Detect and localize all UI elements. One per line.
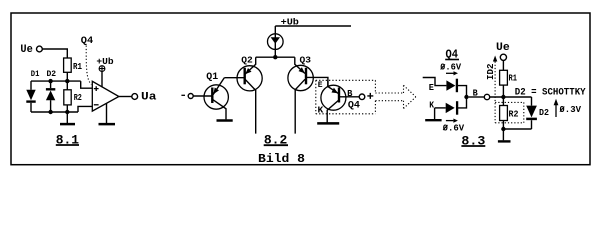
wire op-amp output	[119, 96, 132, 98]
wire Ue to R1	[42, 49, 67, 58]
wire K lead	[435, 107, 446, 109]
svg-text:Ue: Ue	[496, 42, 510, 54]
current arrow top	[446, 72, 454, 74]
svg-text:+Ub: +Ub	[96, 57, 113, 67]
svg-text:Bild 8: Bild 8	[258, 152, 305, 166]
wire bottom 8.3	[503, 128, 531, 130]
svg-text:R1: R1	[73, 61, 82, 72]
svg-text:K: K	[318, 105, 324, 116]
svg-text:Ue: Ue	[20, 44, 33, 56]
current source I1	[274, 26, 276, 34]
resistor R1	[64, 58, 72, 72]
wire node to op-amp plus input	[81, 81, 93, 88]
svg-text:Q4: Q4	[81, 36, 93, 47]
terminal Ue	[37, 46, 43, 52]
junction dot current source	[273, 55, 277, 59]
terminal Ue	[500, 54, 506, 60]
dotted box R2	[495, 102, 524, 122]
junction dot bottom	[501, 127, 505, 131]
wire node rail	[256, 56, 295, 58]
ground rail	[66, 112, 68, 123]
wire R1 bottom to node	[66, 72, 68, 81]
resistor R2	[500, 106, 508, 121]
svg-text:Q2: Q2	[241, 54, 253, 65]
svg-text:+Ub: +Ub	[281, 17, 299, 27]
svg-text:D2: D2	[539, 107, 549, 118]
diode lower (B-K)	[446, 103, 455, 113]
big dotted arrow	[375, 85, 415, 108]
resistor R2	[66, 81, 68, 90]
input minus terminal	[181, 94, 185, 96]
diode upper (B-E)	[446, 80, 455, 90]
junction dot rail	[501, 95, 505, 99]
svg-text:0.6V: 0.6V	[443, 123, 465, 133]
border frame	[11, 13, 590, 165]
junction dot D2 bottom	[48, 110, 52, 114]
resistor R1	[500, 70, 508, 85]
wire rail to op-amp minus input	[78, 106, 92, 112]
terminal Ua	[132, 94, 138, 100]
svg-text:E: E	[429, 83, 435, 93]
ground Q4	[317, 122, 339, 125]
svg-text:R2: R2	[74, 92, 82, 103]
wire input to Q1 base	[193, 95, 212, 97]
dashed box Q4 composite	[316, 80, 376, 114]
junction dot D2 top	[48, 79, 52, 83]
svg-text:E: E	[318, 80, 323, 90]
ground op-amp	[106, 103, 108, 123]
svg-text:D2: D2	[47, 70, 57, 79]
diode D2 schottky	[531, 97, 533, 106]
terminal connector	[484, 94, 489, 99]
svg-text:R1: R1	[509, 73, 518, 84]
diode D2	[50, 81, 52, 88]
junction dot R1/R2	[65, 79, 69, 83]
ground Q1	[217, 119, 233, 121]
svg-text:Q1: Q1	[206, 72, 218, 83]
dotted current arrow ID2	[494, 62, 496, 123]
svg-text:ID2: ID2	[486, 64, 496, 81]
junction dot B	[464, 95, 468, 99]
wire E lead	[423, 78, 447, 86]
wire +Ub rail	[275, 25, 351, 27]
wire B to connector	[469, 96, 485, 98]
svg-text:Q3: Q3	[300, 54, 312, 65]
wire node horizontal	[31, 80, 81, 82]
wire Q1 emitter to Q2 base	[224, 77, 244, 79]
wire Q3 base to E	[306, 77, 328, 86]
wire connector to rail and D2	[490, 96, 532, 98]
dotted pointer line Q4	[86, 46, 91, 85]
op-amp U1	[92, 81, 119, 111]
svg-text:R2: R2	[509, 108, 519, 119]
svg-text:0.3V: 0.3V	[559, 105, 581, 115]
svg-text:0.6V: 0.6V	[440, 63, 462, 73]
svg-text:D1: D1	[31, 70, 40, 79]
voltage arrow 0.3V	[555, 105, 557, 118]
ground 8.3	[502, 129, 504, 140]
transistor Q4 inner	[321, 85, 346, 110]
svg-text:D2 = SCHOTTKY: D2 = SCHOTTKY	[515, 87, 586, 98]
current arrow bottom	[446, 120, 454, 122]
svg-text:B: B	[347, 88, 353, 99]
terminal B plus	[359, 94, 365, 100]
diode D1	[30, 81, 32, 90]
power symbol circle-plus	[99, 66, 105, 72]
wire bottom rail	[31, 111, 78, 113]
svg-text:Ua: Ua	[141, 92, 157, 104]
junction dot R2 bottom	[65, 110, 69, 114]
svg-text:K: K	[429, 101, 434, 111]
svg-text:Q4: Q4	[348, 100, 360, 111]
